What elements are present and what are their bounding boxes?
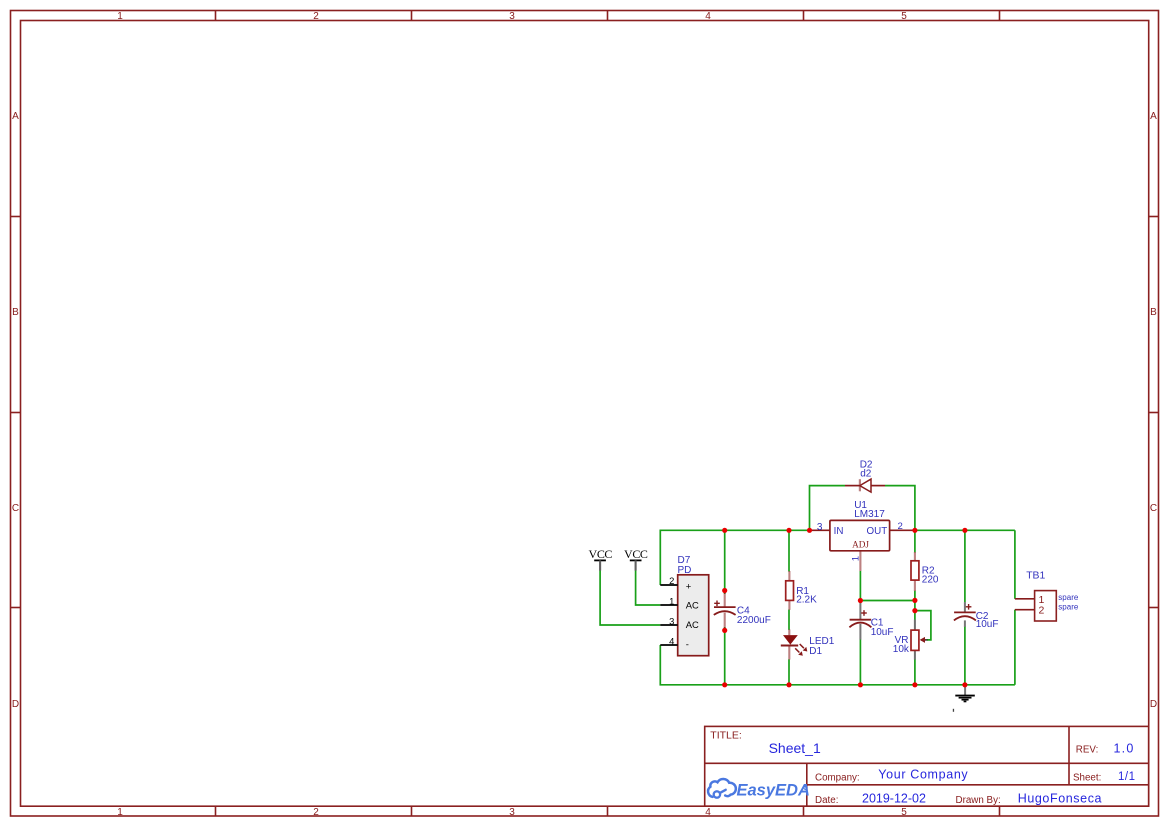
svg-text:Sheet:: Sheet: <box>1073 772 1101 783</box>
U1 pin name ADJ <box>852 540 869 550</box>
wire VCC2 to bridge pin1 <box>636 570 661 605</box>
svg-text:2: 2 <box>1039 605 1045 617</box>
svg-text:10uF: 10uF <box>976 619 999 630</box>
D7 pin number 2 <box>669 575 674 586</box>
node C4 top rail <box>722 528 727 533</box>
svg-text:3: 3 <box>509 807 515 818</box>
svg-text:-: - <box>686 639 689 650</box>
D7 pin name + <box>686 581 692 592</box>
power flag VCC (left) <box>589 547 613 570</box>
node OUT / D2 right <box>912 528 917 533</box>
potentiometer VR <box>911 620 927 660</box>
regulator U1 LM317 <box>810 520 915 571</box>
capacitor C1 <box>849 601 871 640</box>
wire OUT rail <box>915 529 1015 531</box>
svg-text:1: 1 <box>117 11 123 22</box>
svg-text:D1: D1 <box>809 646 822 657</box>
D2 labels <box>860 460 873 480</box>
svg-text:D: D <box>12 699 19 710</box>
wire TB1 pin2 drop <box>1014 610 1016 685</box>
svg-text:3: 3 <box>669 615 674 626</box>
node bottom rail C4 <box>722 682 727 687</box>
wire bridge pin4 drop and bottom rail <box>660 645 1015 685</box>
stray text mark <box>953 709 954 712</box>
svg-text:VCC: VCC <box>589 547 613 561</box>
U1 labels <box>854 500 885 520</box>
svg-text:4: 4 <box>669 635 674 646</box>
wire R2/VR column <box>914 530 916 685</box>
svg-text:3: 3 <box>817 522 823 533</box>
svg-text:1: 1 <box>851 556 862 561</box>
D7 pin name AC (2) <box>686 619 699 630</box>
svg-text:2: 2 <box>313 11 319 22</box>
svg-text:A: A <box>1150 111 1157 122</box>
svg-text:C: C <box>1150 503 1157 514</box>
node bottom rail ground <box>962 682 967 687</box>
svg-text:4: 4 <box>705 807 711 818</box>
svg-text:EasyEDA: EasyEDA <box>737 782 810 800</box>
node bottom rail C1 <box>858 682 863 687</box>
U1 pin name OUT <box>867 526 888 537</box>
svg-text:D: D <box>1150 699 1157 710</box>
capacitor C2 <box>954 602 976 627</box>
D7 pin name - <box>686 639 689 650</box>
svg-text:HugoFonseca: HugoFonseca <box>1018 792 1102 806</box>
node C4 pin bottom <box>722 628 727 633</box>
node C4 pin top <box>722 588 727 593</box>
junction dots <box>722 528 967 688</box>
wire ADJ to R2 <box>860 571 915 601</box>
wire bridge pin2 riser and top rail to IN <box>660 530 809 585</box>
VR labels <box>893 635 910 655</box>
svg-text:10k: 10k <box>893 644 910 655</box>
node bottom rail LED <box>786 682 791 687</box>
svg-text:C: C <box>12 503 19 514</box>
wire C1 column <box>859 639 861 684</box>
svg-text:1.0: 1.0 <box>1114 742 1135 756</box>
U1 pin number 1 <box>851 556 862 561</box>
svg-text:1/1: 1/1 <box>1118 771 1136 783</box>
svg-text:5: 5 <box>901 807 907 818</box>
svg-text:B: B <box>1150 307 1157 318</box>
bridge rectifier D7 <box>660 575 708 656</box>
TB1 net label spare (pin1) <box>1058 593 1079 602</box>
svg-text:Company:: Company: <box>815 772 860 783</box>
svg-text:10uF: 10uF <box>871 627 894 638</box>
node bottom rail VR <box>912 682 917 687</box>
svg-text:d2: d2 <box>860 469 872 480</box>
node R2 bottom b / wiper <box>912 608 917 613</box>
svg-text:spare: spare <box>1058 603 1079 612</box>
svg-text:B: B <box>12 307 19 318</box>
D7 pin number 4 <box>669 635 674 646</box>
LED1 labels <box>809 636 834 657</box>
svg-text:2.2K: 2.2K <box>796 595 817 606</box>
svg-text:ADJ: ADJ <box>852 540 869 550</box>
svg-text:TITLE:: TITLE: <box>710 729 742 741</box>
schematic <box>589 460 1079 712</box>
svg-text:Drawn By:: Drawn By: <box>956 795 1001 806</box>
EasyEDA logo <box>708 779 810 800</box>
svg-text:+: + <box>686 581 692 592</box>
U1 pin number 2 <box>898 521 903 532</box>
U1 pin number 3 <box>817 522 823 533</box>
terminal block TB1 <box>1015 591 1056 621</box>
TB1 net label spare (pin2) <box>1058 603 1079 612</box>
node R2 bottom a <box>912 598 917 603</box>
ground <box>955 685 975 702</box>
wire D2 loop <box>810 486 915 531</box>
D7 pin name AC (1) <box>686 600 699 611</box>
svg-text:2: 2 <box>669 575 674 586</box>
svg-text:5: 5 <box>901 11 907 22</box>
C4 labels <box>737 606 771 627</box>
svg-text:LM317: LM317 <box>854 509 885 520</box>
wire TB1 pin1 riser <box>1014 530 1016 599</box>
svg-text:IN: IN <box>834 526 844 537</box>
svg-text:REV:: REV: <box>1076 745 1099 756</box>
svg-text:4: 4 <box>705 11 711 22</box>
svg-text:2200uF: 2200uF <box>737 615 771 626</box>
resistor R2 <box>911 552 919 591</box>
svg-text:220: 220 <box>922 574 939 585</box>
D7 reference label <box>678 555 692 576</box>
wire C4 column <box>724 530 726 685</box>
svg-text:2: 2 <box>313 807 319 818</box>
node C2 top rail <box>962 528 967 533</box>
svg-text:A: A <box>12 111 19 122</box>
R2 labels <box>922 566 939 586</box>
svg-text:1: 1 <box>669 596 674 607</box>
wire VR wiper <box>915 611 931 640</box>
diode D2 <box>845 479 885 492</box>
C2 labels <box>976 611 999 630</box>
svg-text:VCC: VCC <box>624 547 648 561</box>
svg-text:AC: AC <box>686 619 699 630</box>
svg-text:TB1: TB1 <box>1026 570 1045 581</box>
D7 pin number 1 <box>669 596 674 607</box>
LED LED1 <box>781 629 808 659</box>
svg-text:Your Company: Your Company <box>878 768 968 782</box>
U1 pin name IN <box>834 526 844 537</box>
svg-text:OUT: OUT <box>867 526 888 537</box>
svg-text:Sheet_1: Sheet_1 <box>769 740 821 756</box>
svg-text:AC: AC <box>686 600 699 611</box>
wire VCC1 to bridge pin3 <box>600 570 660 625</box>
D7 pin number 3 <box>669 615 674 626</box>
node ADJ / C1 <box>858 598 863 603</box>
TB1 pin number 2 <box>1039 605 1045 617</box>
resistor R1 <box>786 571 794 610</box>
capacitor C4 <box>714 591 736 631</box>
node IN / D2 left <box>807 528 812 533</box>
TB1 pin number 1 <box>1039 594 1045 606</box>
svg-text:1: 1 <box>117 807 123 818</box>
svg-text:spare: spare <box>1058 593 1079 602</box>
svg-text:Date:: Date: <box>815 795 838 806</box>
svg-text:3: 3 <box>509 11 515 22</box>
TB1 reference label <box>1026 570 1045 581</box>
svg-text:PD: PD <box>678 565 692 576</box>
title block <box>705 726 1149 806</box>
svg-text:2019-12-02: 2019-12-02 <box>862 792 926 806</box>
power flag VCC (right) <box>624 547 648 570</box>
wire C2 column <box>964 530 966 685</box>
svg-text:2: 2 <box>898 521 903 532</box>
wire R1/LED column <box>788 530 790 685</box>
R1 labels <box>796 586 817 606</box>
C1 labels <box>871 617 894 638</box>
node R1 top rail <box>786 528 791 533</box>
